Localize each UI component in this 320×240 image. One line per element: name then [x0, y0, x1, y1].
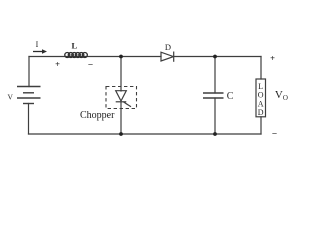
svg-text:Chopper: Chopper	[80, 110, 115, 121]
wire load top lead	[260, 57, 262, 80]
thyristor (chopper switch)	[116, 91, 131, 107]
svg-text:+: +	[55, 59, 60, 69]
junction dot top capacitor	[213, 55, 217, 59]
svg-text:O: O	[258, 91, 264, 100]
svg-text:L: L	[258, 82, 263, 91]
wire source bottom lead	[28, 104, 30, 135]
svg-text:A: A	[258, 99, 264, 108]
capacitor C	[203, 93, 224, 98]
junction dot bottom chopper	[119, 132, 123, 136]
label LOAD (vertical letters)	[258, 82, 264, 117]
svg-text:–: –	[87, 58, 93, 68]
svg-text:VO: VO	[275, 89, 288, 102]
chopper dashed box	[106, 87, 137, 109]
wire load bottom lead	[260, 117, 262, 134]
svg-text:I: I	[36, 40, 39, 49]
svg-text:–: –	[271, 127, 277, 137]
diode D	[161, 52, 174, 62]
svg-text:D: D	[258, 108, 264, 117]
inductor L	[65, 53, 88, 58]
svg-text:C: C	[227, 91, 234, 102]
svg-text:D: D	[165, 42, 171, 52]
battery V	[17, 87, 41, 104]
wire chopper anode	[120, 57, 122, 92]
wire capacitor top lead	[214, 57, 216, 94]
svg-text:V: V	[7, 92, 13, 101]
wire chopper cathode	[120, 102, 122, 134]
wire bottom rail	[29, 133, 262, 135]
svg-text:+: +	[270, 53, 275, 63]
wire capacitor bottom lead	[214, 98, 216, 134]
wire top rail left segment	[29, 56, 161, 58]
junction dot bottom capacitor	[213, 132, 217, 136]
current arrow I	[33, 49, 47, 54]
load box	[256, 79, 266, 117]
wire left vertical (source top lead)	[28, 57, 30, 87]
wire top rail right segment	[174, 56, 261, 58]
svg-text:L: L	[71, 40, 77, 50]
junction dot top chopper	[119, 55, 123, 59]
